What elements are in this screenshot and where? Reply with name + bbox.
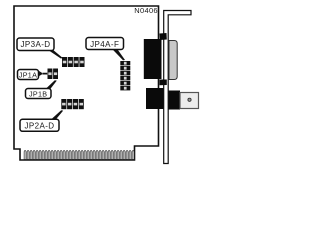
svg-text:JP2A-D: JP2A-D: [25, 122, 55, 131]
jumper block JP1A/JP1B: [48, 69, 59, 80]
label JP4A-F: [86, 38, 125, 61]
label JP2A-D: [20, 110, 63, 131]
DB connector D-face: [169, 41, 177, 80]
jumper block JP3A-D: [62, 57, 85, 67]
connector DB black body: [144, 39, 162, 79]
mounting bracket: [164, 11, 191, 164]
svg-text:N0406: N0406: [134, 6, 158, 15]
BNC barrel: [180, 93, 199, 109]
BNC barrel hole: [188, 98, 191, 101]
connector BNC black body: [146, 88, 165, 109]
svg-text:JP1B: JP1B: [29, 90, 47, 99]
PCB outline: [14, 6, 159, 160]
label JP1A: [18, 70, 48, 80]
label JP1B: [26, 80, 57, 98]
jumper block JP2A-D: [61, 99, 83, 109]
bracket fastener top: [160, 33, 167, 40]
jumper block JP4A-F: [120, 61, 130, 90]
svg-text:JP4A-F: JP4A-F: [90, 40, 119, 49]
svg-text:JP3A-D: JP3A-D: [21, 40, 51, 49]
label JP3A-D: [17, 38, 63, 59]
bracket fastener bottom: [160, 80, 167, 86]
BNC neck: [166, 91, 180, 110]
svg-text:JP1A: JP1A: [19, 70, 37, 79]
